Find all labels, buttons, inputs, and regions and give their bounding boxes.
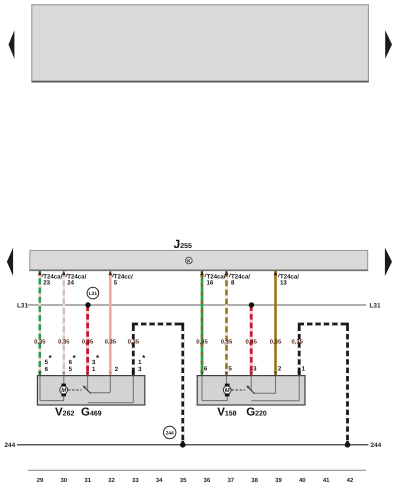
svg-text:42: 42: [347, 477, 354, 484]
svg-text:2: 2: [278, 366, 282, 373]
svg-text:0,35: 0,35: [291, 338, 303, 345]
svg-text:34: 34: [156, 477, 163, 484]
svg-text:2: 2: [115, 366, 119, 373]
svg-text:3: 3: [138, 366, 142, 373]
svg-text:K: K: [187, 259, 191, 265]
svg-text:29: 29: [37, 477, 44, 484]
svg-text:32: 32: [108, 477, 115, 484]
svg-text:244: 244: [5, 442, 16, 449]
svg-text:16: 16: [207, 280, 214, 287]
svg-text:0,35: 0,35: [196, 338, 208, 345]
svg-text:37: 37: [227, 477, 234, 484]
svg-text:L31: L31: [370, 302, 381, 309]
svg-text:30: 30: [60, 477, 67, 484]
svg-text:*: *: [142, 354, 146, 363]
svg-text:G469: G469: [81, 406, 102, 418]
svg-text:23: 23: [43, 280, 50, 287]
svg-text:0,35: 0,35: [58, 338, 70, 345]
svg-text:*: *: [96, 354, 100, 363]
svg-text:13: 13: [280, 280, 287, 287]
svg-text:3: 3: [253, 366, 257, 373]
svg-text:31: 31: [84, 477, 91, 484]
svg-text:244: 244: [166, 431, 174, 437]
svg-text:V262: V262: [55, 406, 74, 418]
svg-text:0,35: 0,35: [128, 338, 140, 345]
svg-text:J255: J255: [174, 237, 192, 251]
svg-text:35: 35: [180, 477, 187, 484]
svg-text:39: 39: [275, 477, 282, 484]
svg-text:6: 6: [45, 366, 49, 373]
svg-text:8: 8: [231, 280, 235, 287]
svg-text:0,35: 0,35: [34, 338, 46, 345]
svg-text:5: 5: [69, 366, 73, 373]
svg-text:38: 38: [251, 477, 258, 484]
svg-text:*: *: [49, 354, 53, 363]
svg-text:0,35: 0,35: [105, 338, 117, 345]
svg-text:0,35: 0,35: [245, 338, 257, 345]
svg-text:1: 1: [302, 366, 306, 373]
svg-text:*: *: [73, 354, 77, 363]
svg-text:V158: V158: [217, 406, 236, 418]
svg-text:L31: L31: [17, 302, 28, 309]
svg-text:G220: G220: [246, 406, 267, 418]
svg-text:5: 5: [114, 280, 118, 287]
svg-text:0,35: 0,35: [270, 338, 282, 345]
svg-text:244: 244: [371, 442, 382, 449]
svg-text:6: 6: [204, 366, 208, 373]
svg-text:36: 36: [204, 477, 211, 484]
svg-text:33: 33: [132, 477, 139, 484]
svg-text:0,35: 0,35: [221, 338, 233, 345]
svg-text:0,35: 0,35: [82, 338, 94, 345]
svg-text:5: 5: [228, 366, 232, 373]
svg-text:1: 1: [92, 366, 96, 373]
svg-text:41: 41: [323, 477, 330, 484]
svg-text:L31: L31: [89, 291, 98, 297]
svg-text:24: 24: [67, 280, 74, 287]
svg-text:40: 40: [299, 477, 306, 484]
